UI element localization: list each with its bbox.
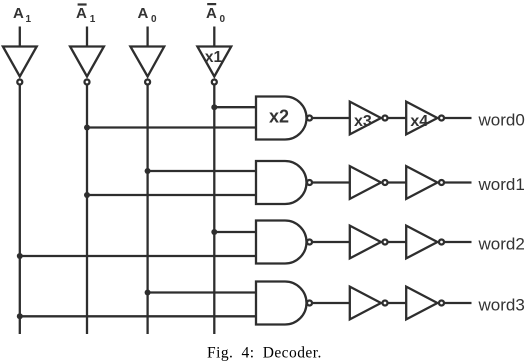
input label A1-bar: [76, 3, 96, 25]
inverter for A1: [3, 47, 37, 85]
svg-text:word2: word2: [478, 235, 525, 254]
NAND gate U x2 (word0): [256, 97, 312, 140]
wire word3 bottom input: [20, 315, 256, 317]
inverter buffer2b (word2): [406, 226, 444, 259]
wire NAND1 to buffer: [312, 181, 350, 183]
svg-text:A: A: [76, 5, 87, 22]
svg-text:1: 1: [26, 14, 32, 25]
input label A1: [13, 5, 32, 25]
NAND gate (word1): [256, 161, 312, 204]
inverter buffer3a (word3): [350, 287, 388, 320]
inverter U x4 (word0): [406, 102, 444, 135]
wire word2 bottom input: [20, 255, 256, 257]
junction V1/word2: [17, 253, 23, 259]
wire word0 bottom input: [87, 126, 256, 128]
svg-text:0: 0: [220, 14, 226, 25]
svg-text:x1: x1: [205, 49, 223, 66]
NAND gate (word2): [256, 221, 312, 264]
wire word3 top input: [148, 291, 256, 293]
wire word2 top input: [214, 231, 256, 233]
wire A0-bar input stub: [213, 27, 215, 47]
junction V2/word0: [84, 125, 90, 131]
wire NAND3 to buffer: [312, 302, 350, 304]
wire A1-bar input stub: [86, 27, 88, 47]
svg-text:A: A: [138, 5, 149, 22]
wire NAND2 to buffer: [312, 241, 350, 243]
junction V3/word1: [145, 168, 151, 174]
wire NAND0 to buffer x3: [312, 117, 350, 119]
inverter for A0: [130, 47, 164, 85]
wire vertical bus V1: [19, 85, 21, 334]
wire word1 top input: [148, 170, 256, 172]
svg-text:x2: x2: [269, 107, 289, 127]
inverter buffer2a (word2): [350, 226, 388, 259]
svg-text:A: A: [13, 5, 24, 22]
wire word0 top input: [214, 106, 256, 108]
inverter U x1 for A0-bar: [197, 47, 231, 85]
wire A0 input stub: [146, 27, 148, 47]
junction V1/word3: [17, 313, 23, 319]
junction V3/word3: [145, 290, 151, 296]
input label A0: [138, 5, 158, 25]
wire buffer1a to buffer1b: [388, 181, 407, 183]
wire buffer3b to word3: [444, 302, 471, 304]
svg-text:word1: word1: [478, 175, 525, 194]
svg-text:A: A: [206, 5, 217, 22]
inverter for A1-bar: [70, 47, 104, 85]
wire x4 to word0: [444, 117, 471, 119]
wire vertical bus V2: [86, 85, 88, 334]
junction V4/word0: [211, 104, 217, 110]
wire buffer2a to buffer2b: [388, 241, 407, 243]
NAND gate (word3): [256, 282, 312, 325]
wire A1 input stub: [19, 27, 21, 47]
wire buffer1b to word1: [444, 181, 471, 183]
inverter buffer1a (word1): [350, 166, 388, 199]
wire word1 bottom input: [87, 194, 256, 196]
wire buffer3a to buffer3b: [388, 302, 407, 304]
input label A0-bar: [206, 3, 226, 25]
svg-text:Fig. 4: Decoder.: Fig. 4: Decoder.: [207, 344, 322, 361]
inverter buffer1b (word1): [406, 166, 444, 199]
svg-text:word0: word0: [478, 111, 525, 130]
svg-text:x3: x3: [354, 113, 372, 130]
inverter buffer3b (word3): [406, 287, 444, 320]
wire vertical bus V4: [213, 85, 215, 334]
junction V4/word2: [211, 229, 217, 235]
junction V2/word1: [84, 192, 90, 198]
svg-text:1: 1: [90, 14, 96, 25]
wire vertical bus V3: [146, 85, 148, 334]
inverter U x3 (word0): [350, 102, 388, 135]
svg-text:x4: x4: [410, 113, 428, 130]
wire buffer2b to word2: [444, 241, 471, 243]
svg-text:word3: word3: [478, 296, 525, 315]
wire x3 to x4: [388, 117, 407, 119]
svg-text:0: 0: [151, 14, 157, 25]
